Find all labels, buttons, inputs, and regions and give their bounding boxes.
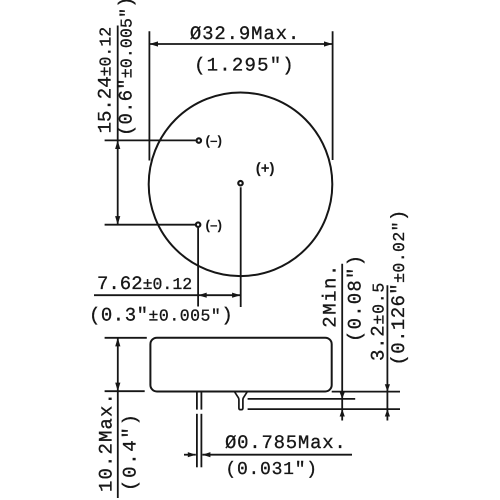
buzzer case outline (top view circle): [149, 93, 333, 277]
arrow right of 32.9 dim: [324, 41, 333, 46]
wire: 15.24 dimension line vertical: [117, 26, 119, 225]
svg-text:(0.6"±0.005"): (0.6"±0.005"): [116, 0, 138, 136]
svg-text:7.62±0.12: 7.62±0.12: [97, 273, 192, 295]
arrow left of 32.9 dim: [149, 41, 158, 46]
arrow down at 224.7: [115, 216, 120, 225]
wire: 10.2 extension line top: [105, 337, 147, 339]
svg-text:(+): (+): [256, 160, 275, 177]
pin lead (-) side view upper segment: [196, 392, 198, 410]
svg-text:(0.031"): (0.031"): [225, 460, 317, 480]
svg-text:Ø0.785Max.: Ø0.785Max.: [225, 432, 347, 454]
wire: vertical line from lower (-) pin down: [197, 228, 199, 307]
arrow down at 391.2: [115, 383, 120, 392]
arrow down at 398.9 (2Min top): [340, 392, 345, 399]
wire: pin-tip extension line: [248, 408, 400, 410]
svg-text:Ø32.9Max.: Ø32.9Max.: [190, 23, 300, 45]
wire: seating plane extension line: [332, 391, 400, 393]
svg-text:(–): (–): [206, 217, 223, 232]
arrow right at 240.7: [232, 293, 241, 298]
svg-text:(0.126"±0.02"): (0.126"±0.02"): [388, 209, 410, 365]
arrow left at 198.1: [198, 293, 207, 298]
wire: leader from upper (-) pin: [105, 139, 196, 141]
wire: diameter dimension line: [149, 43, 332, 45]
wire: 10.2 extension line bottom: [105, 390, 145, 392]
pin terminal (-) lower: [196, 222, 201, 227]
arrow right at pin left edge: [188, 452, 196, 457]
wire: diameter extension line right: [332, 31, 334, 160]
svg-text:3.2±0.5: 3.2±0.5: [368, 282, 390, 361]
wire: 3.2 dimension line vertical: [386, 285, 388, 420]
svg-text:(0.4"): (0.4"): [120, 412, 142, 491]
arrow down at 391.6 (3.2 top): [385, 384, 390, 391]
buzzer case (side view body): [150, 338, 331, 392]
wire: vertical line from (+) pin down: [240, 187, 242, 307]
svg-text:15.24±0.12: 15.24±0.12: [95, 27, 117, 134]
svg-text:2Min.: 2Min.: [320, 263, 342, 328]
wire: diameter extension line left: [148, 31, 150, 160]
arrow up at 337.8: [115, 338, 120, 347]
wire: 2Min dimension line vertical: [341, 264, 343, 421]
pin lead (-) side view lower segment: [196, 414, 198, 468]
pin terminal (+) center: [238, 181, 243, 186]
svg-text:(0.08"): (0.08"): [345, 254, 367, 342]
svg-text:(0.3"±0.005"): (0.3"±0.005"): [89, 304, 233, 326]
wire: leader from lower (-) pin: [105, 224, 196, 226]
svg-text:(1.295"): (1.295"): [194, 55, 295, 77]
wire: pin diameter leader line: [184, 454, 196, 456]
arrow up at 140.4: [115, 140, 120, 149]
pin terminal (-) upper: [197, 138, 202, 143]
wire: taper-end extension line: [248, 398, 356, 400]
wire: 7.62 dimension line: [94, 294, 241, 296]
arrow up at 409.1 (2Min bottom): [340, 409, 345, 416]
svg-text:10.2Max.: 10.2Max.: [95, 392, 117, 492]
pin lead (+) side view tapered: [235, 392, 248, 410]
arrow left at pin right edge: [202, 452, 210, 457]
wire: 10.2 dimension line vertical: [117, 338, 119, 498]
arrow up at 409.1 (3.2 bottom): [385, 409, 390, 416]
svg-text:(–): (–): [206, 133, 223, 148]
